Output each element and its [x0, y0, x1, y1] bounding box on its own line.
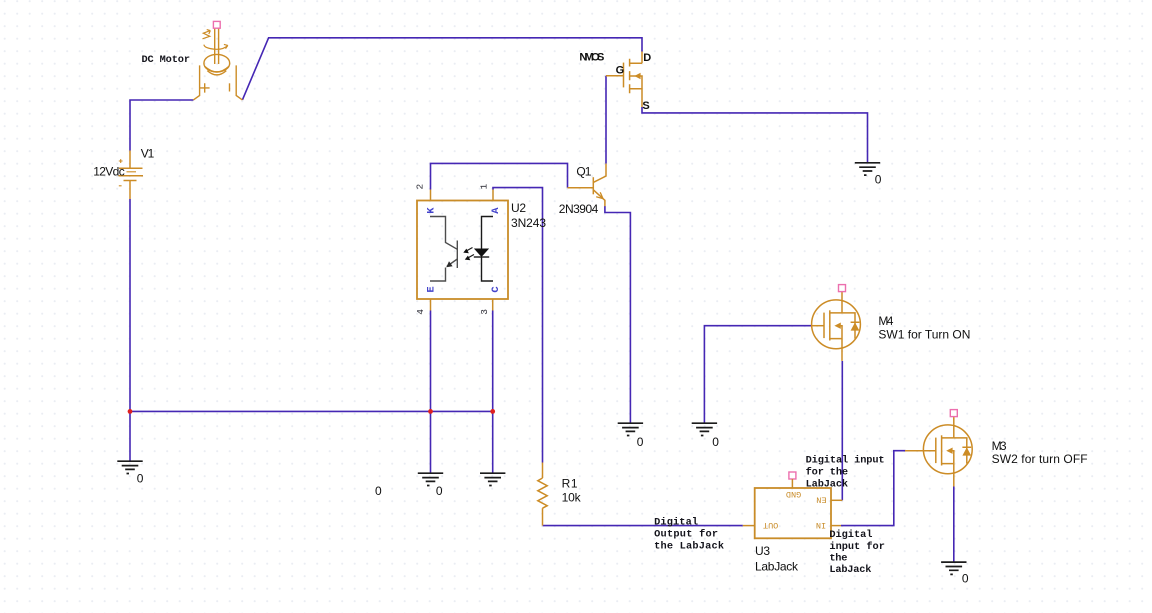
svg-text:0: 0 [436, 484, 443, 498]
svg-text:U3: U3 [755, 544, 770, 558]
svg-text:EN: EN [816, 495, 826, 505]
wire ground bus horizontal [130, 410, 493, 412]
U3 OUT pin stub [743, 525, 755, 527]
DC Motor symbol [193, 28, 242, 100]
svg-text:1: 1 [478, 184, 489, 190]
svg-text:0: 0 [712, 435, 719, 449]
U2 pin 3 stub [492, 299, 494, 311]
svg-text:G: G [616, 64, 625, 76]
svg-text:input for: input for [829, 541, 885, 553]
ground (U2 pin4) [418, 473, 443, 485]
svg-text:IN: IN [816, 520, 826, 530]
wire V1 top to DC Motor left terminal [130, 100, 193, 151]
svg-text:NMOS: NMOS [579, 52, 604, 64]
wire U2 pin1 to R1 top [493, 188, 543, 463]
svg-text:LabJack: LabJack [755, 560, 799, 574]
wire NMOS source to right ground [642, 107, 868, 163]
transistor Q1 [568, 164, 607, 207]
wire Q1 emitter to ground [605, 206, 631, 423]
voltage source V1 [119, 151, 144, 200]
ground (M4 gate pulldown) [692, 423, 717, 435]
U2 pin 4 stub [430, 299, 432, 311]
U3 IN pin stub [831, 525, 841, 527]
ground (U2 pin3) [480, 473, 505, 485]
svg-text:Digital: Digital [829, 529, 872, 541]
wire U3 IN pin to M3 gate [841, 451, 906, 526]
svg-text:the: the [829, 552, 847, 564]
DC Motor shaft pin marker [213, 21, 220, 28]
LabJack U3 body [755, 488, 831, 538]
svg-text:GND: GND [786, 489, 801, 499]
ground (V1 / bus left) [117, 461, 142, 473]
optocoupler U2 body [417, 201, 508, 300]
ground (NMOS source, top right) [855, 163, 880, 175]
wire U2 pin4 to ground bus [430, 311, 432, 473]
U3 EN pin stub [831, 499, 842, 501]
svg-text:LabJack: LabJack [806, 478, 849, 490]
wire NMOS gate to Q1 collector [605, 76, 607, 164]
U2 internal phototransistor [430, 217, 457, 282]
resistor R1 [538, 463, 547, 526]
svg-text:3N243: 3N243 [511, 216, 546, 230]
U2 pin 1 stub [492, 190, 494, 201]
svg-text:12Vdc: 12Vdc [93, 165, 125, 179]
svg-text:0: 0 [375, 484, 382, 498]
wire U2 pin2 to Q1 base [431, 163, 568, 189]
svg-text:Q1: Q1 [576, 165, 591, 179]
svg-text:0: 0 [962, 572, 969, 586]
svg-text:D: D [643, 52, 651, 64]
svg-text:M3: M3 [992, 439, 1007, 453]
svg-text:SW2 for turn OFF: SW2 for turn OFF [992, 452, 1088, 466]
wire R1 bottom to U3 OUT pin [543, 525, 743, 527]
svg-text:0: 0 [137, 472, 144, 486]
node junction dot V1/bus [128, 409, 133, 414]
MOSFET M4 (SW1) [812, 285, 861, 361]
U3 GND pin marker (pink) [789, 472, 796, 479]
U2 light arrows [463, 248, 474, 261]
wire M3 source to ground [953, 487, 955, 562]
svg-text:SW1 for Turn ON: SW1 for Turn ON [878, 327, 970, 341]
wire U2 pin3 to ground bus [492, 311, 494, 473]
wire M4 gate to ground [704, 326, 811, 423]
svg-text:S: S [642, 100, 649, 112]
svg-text:Output for: Output for [654, 528, 718, 540]
svg-text:M4: M4 [878, 314, 893, 328]
svg-text:0: 0 [875, 173, 882, 187]
wire M4 source to U3 EN pin [841, 361, 843, 500]
MOSFET M3 (SW2) [905, 410, 972, 487]
svg-text:0: 0 [637, 435, 644, 449]
svg-text:2N3904: 2N3904 [559, 202, 599, 216]
svg-text:OUT: OUT [763, 520, 778, 530]
U3 GND pin stub [791, 479, 793, 488]
svg-text:4: 4 [415, 309, 426, 315]
svg-text:K: K [426, 207, 438, 214]
ground (Q1 emitter) [618, 423, 643, 435]
ground (M3 source) [941, 562, 966, 574]
svg-text:LabJack: LabJack [829, 564, 871, 576]
svg-text:A: A [490, 207, 502, 214]
U2 internal LED [474, 217, 493, 282]
node junction dot pin3/bus [490, 409, 495, 414]
svg-text:E: E [426, 286, 438, 292]
wire V1 minus down to bus and ground [129, 199, 131, 461]
U2 pin 2 stub [430, 190, 432, 201]
svg-text:U2: U2 [511, 201, 526, 215]
NMOS transistor [606, 52, 642, 108]
svg-text:R1: R1 [562, 477, 578, 491]
svg-text:C: C [490, 286, 502, 293]
svg-text:DC Motor: DC Motor [142, 54, 191, 66]
node junction dot pin4/bus [428, 409, 433, 414]
svg-text:the LabJack: the LabJack [654, 540, 724, 552]
NMOS bulk arrow [634, 73, 640, 80]
U2 emitter arrowhead [446, 261, 452, 267]
svg-text:Digital input: Digital input [806, 454, 885, 466]
svg-text:2: 2 [414, 184, 425, 190]
svg-text:V1: V1 [141, 147, 155, 161]
svg-text:Digital: Digital [654, 516, 698, 528]
svg-text:3: 3 [479, 309, 490, 315]
svg-text:for the: for the [806, 466, 849, 478]
wire DC Motor right terminal to NMOS drain (diagonal + top run) [242, 38, 642, 100]
svg-text:10k: 10k [562, 491, 582, 505]
